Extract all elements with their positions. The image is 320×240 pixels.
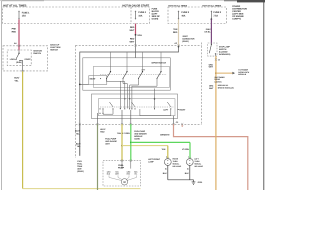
svg-text:BRAKE SIGNAL(S): BRAKE SIGNAL(S): [218, 86, 234, 89]
svg-text:LAMP: LAMP: [148, 160, 154, 163]
svg-text:BLK/: BLK/: [76, 142, 81, 145]
svg-text:B1: B1: [187, 168, 189, 171]
switch assembly S1 (box): [83, 58, 171, 90]
svg-text:MODULE: MODULE: [238, 73, 247, 76]
svg-text:YEL: YEL: [134, 173, 137, 176]
coil K1: [89, 76, 107, 85]
svg-text:FUEL: FUEL: [118, 164, 124, 167]
svg-text:(GRAY): (GRAY): [182, 40, 189, 43]
svg-text:WIPER SWITCH: WIPER SWITCH: [151, 62, 166, 65]
fuel pump module note: [105, 137, 117, 145]
svg-text:TAN: TAN: [173, 28, 178, 31]
brake switch label: [219, 45, 231, 56]
svg-text:FUSE 4: FUSE 4: [138, 11, 146, 14]
svg-text:HOT AT ALL TIMES: HOT AT ALL TIMES: [202, 4, 221, 7]
svg-text:HOT IN ON OR START: HOT IN ON OR START: [122, 4, 149, 7]
wire S2 output stubs: [98, 110, 174, 124]
lamp L1: [164, 156, 171, 171]
lamp L1 label right: [173, 158, 182, 169]
svg-text:NIGHT: NIGHT: [90, 77, 97, 80]
svg-text:IND LAMP: IND LAMP: [173, 165, 182, 168]
svg-text:M: M: [123, 181, 125, 184]
fuse F1: [19, 11, 31, 20]
svg-text:RED: RED: [173, 31, 178, 34]
wire olive (GRY): [98, 124, 106, 190]
switch contact row S2: [99, 102, 174, 116]
svg-text:40A: 40A: [181, 14, 185, 17]
svg-text:BLK/: BLK/: [14, 77, 19, 80]
amber wire note: [215, 76, 234, 89]
svg-text:7.5A: 7.5A: [213, 14, 218, 17]
page border right: [263, 0, 264, 190]
svg-text:LOCK: LOCK: [10, 58, 16, 61]
wire green (LT GRN): [122, 124, 190, 169]
wire salmon (BRN/WHT): [160, 121, 248, 190]
wire fuse F3 feed (TAN): [173, 19, 180, 47]
wire yellow to fuel pump (TAN): [117, 124, 168, 169]
svg-text:PUMP: PUMP: [118, 167, 125, 170]
svg-text:BRN/WHT: BRN/WHT: [160, 134, 170, 137]
junction on S2: [154, 98, 156, 100]
svg-text:W/ BRAKES): W/ BRAKES): [219, 53, 231, 56]
connector ticks on boundary: [79, 123, 184, 125]
harness connector boundary (dashed): [76, 43, 202, 159]
ground wires (BLK): [163, 165, 194, 181]
svg-text:WHT/: WHT/: [100, 128, 105, 131]
fuse block label: [152, 7, 161, 20]
svg-text:2: 2: [166, 156, 167, 159]
svg-text:CONN: CONN: [134, 138, 140, 141]
page border left: [0, 0, 3, 190]
fuel pump pin labels: [107, 170, 138, 175]
svg-text:SWITCH: SWITCH: [33, 52, 41, 55]
svg-text:BLK: BLK: [163, 172, 168, 175]
fuel pump label: [118, 164, 125, 170]
motor M: [121, 179, 127, 185]
svg-text:WHT: WHT: [130, 29, 135, 32]
ignition switch outer label: [50, 43, 61, 51]
svg-text:FUSE 2: FUSE 2: [213, 11, 221, 14]
svg-text:RED: RED: [130, 26, 135, 29]
svg-text:TAN: TAN: [162, 148, 166, 151]
wire coil branch (BLK): [75, 124, 81, 156]
svg-text:LT GRN: LT GRN: [182, 148, 189, 151]
svg-text:FUSE 3: FUSE 3: [181, 11, 189, 14]
svg-text:TAN: TAN: [117, 132, 121, 135]
svg-text:HOT AT ALL TIMES: HOT AT ALL TIMES: [168, 4, 187, 7]
lamp L2: [186, 156, 193, 171]
svg-text:RED: RED: [130, 38, 135, 41]
fuse F2: [211, 11, 222, 20]
connector C101 label: [77, 160, 84, 173]
svg-text:WHT: WHT: [130, 41, 135, 44]
svg-text:15A: 15A: [22, 15, 26, 18]
wire fuse F2 to brake switch (PNK/DK BL): [204, 19, 211, 44]
svg-text:SWITCH: SWITCH: [50, 48, 58, 51]
svg-text:FUSE 1: FUSE 1: [22, 12, 30, 15]
svg-text:LOCKS): LOCKS): [215, 80, 222, 83]
wire ignition switch to fuel pump (YEL): [14, 66, 140, 189]
svg-text:HOT AT ALL TIMES: HOT AT ALL TIMES: [3, 4, 26, 7]
wire splice to switch assembly: [130, 36, 137, 58]
svg-text:COMP'T): COMP'T): [232, 18, 241, 21]
switch contact row S1: [100, 52, 167, 79]
brake switch (dashed box): [208, 43, 217, 56]
fuse F3: [178, 11, 190, 20]
ignition switch contacts: [10, 53, 32, 66]
svg-text:IND LAMP: IND LAMP: [194, 165, 203, 168]
svg-text:BLK/: BLK/: [75, 130, 80, 133]
svg-text:RED: RED: [12, 31, 17, 34]
ignition switch (dashed boxes): [3, 46, 48, 71]
svg-text:C2: C2: [176, 121, 178, 124]
bus wire from fuse F3 to coil: [79, 47, 179, 124]
svg-text:RED: RED: [100, 131, 105, 134]
destination label TO: [238, 69, 250, 76]
svg-text:LT GRN: LT GRN: [122, 132, 130, 135]
junction block (dashed box): [3, 7, 150, 24]
splice S211: [135, 34, 143, 37]
ground G301: [192, 181, 204, 184]
lamp L2 label right: [194, 158, 203, 169]
fuel pump module (dashed box): [103, 161, 141, 186]
svg-text:PNK/: PNK/: [206, 28, 211, 31]
destination note: [134, 130, 147, 141]
svg-text:B1: B1: [165, 168, 167, 171]
joint connector label: [182, 35, 195, 43]
svg-text:BLK: BLK: [185, 172, 190, 175]
svg-text:START: START: [24, 58, 31, 61]
lamp L1 label left: [148, 158, 161, 164]
power distribution center (dashed box): [168, 7, 226, 24]
fuel pump ticks: [121, 160, 132, 162]
power distribution center label: [232, 5, 247, 21]
fuel pump internal wires: [109, 175, 137, 180]
svg-text:(GRAY): (GRAY): [77, 170, 84, 173]
svg-text:RIGHT: RIGHT: [179, 108, 186, 111]
ignition switch inner label: [33, 49, 42, 55]
svg-text:10A: 10A: [138, 14, 142, 17]
svg-text:DK BL: DK BL: [204, 31, 211, 34]
svg-text:15: 15: [218, 59, 220, 62]
switch assembly S2 (box): [92, 94, 178, 119]
wire fuse F4 to switch assembly (RED/WHT): [130, 24, 136, 35]
fuse F4: [135, 11, 147, 20]
svg-text:1: 1: [188, 156, 189, 159]
brake switch contacts: [209, 44, 216, 56]
wires S1 to S2: [107, 79, 158, 109]
wire amber (ORG): [209, 56, 235, 190]
svg-text:DASH): DASH): [152, 17, 159, 20]
svg-text:PNK: PNK: [12, 28, 17, 31]
svg-text:(RUN): (RUN): [16, 61, 22, 64]
page border top: [0, 0, 265, 2]
wire fuse F1 to ignition switch (RED): [12, 19, 20, 53]
